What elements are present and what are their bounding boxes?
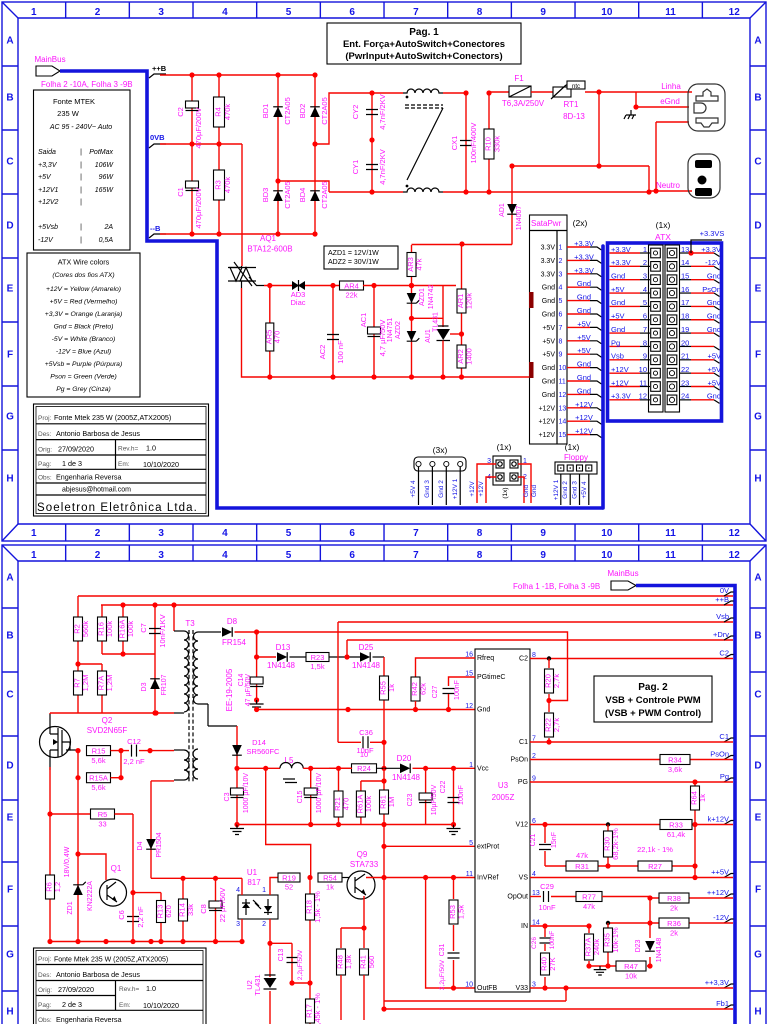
svg-text:E: E (755, 813, 762, 824)
wire R15A right (111, 777, 122, 779)
wire BD2/BD4 column (314, 75, 316, 234)
capacitor C36 (363, 736, 368, 748)
svg-text:61,4k: 61,4k (667, 830, 686, 839)
triac AQ1 (228, 262, 264, 288)
wire C7 column (154, 605, 156, 654)
svg-text:eGnd: eGnd (660, 97, 680, 106)
svg-text:2: 2 (95, 550, 101, 561)
capacitor C14 (250, 677, 263, 687)
svg-text:V12: V12 (516, 822, 529, 829)
svg-text:IN: IN (521, 923, 528, 930)
svg-text:CX1: CX1 (450, 136, 459, 151)
svg-text:+5V = Red (Vermelho): +5V = Red (Vermelho) (50, 299, 118, 306)
svg-text:11: 11 (665, 528, 676, 539)
resistor R40 (540, 953, 558, 975)
svg-text:4,7nF/2KV: 4,7nF/2KV (378, 149, 387, 184)
wire AU1 column top (442, 286, 444, 328)
svg-text:Gnd 2: Gnd 2 (438, 480, 445, 498)
wire R2 column (77, 596, 79, 664)
border frame (2, 545, 766, 1024)
wire switch loop horizontal (599, 165, 649, 167)
svg-text:4: 4 (222, 550, 228, 561)
svg-text:4: 4 (222, 528, 228, 539)
wire to AU1 branch (412, 285, 457, 287)
svg-text:100 nF: 100 nF (336, 340, 345, 364)
junction CY mid (369, 137, 374, 142)
svg-text:R27: R27 (648, 862, 662, 871)
svg-text:1k: 1k (326, 883, 334, 892)
svg-text:+5V 4: +5V 4 (581, 481, 588, 499)
wire 0VB to triac (241, 144, 243, 266)
wire BD1/BD3 column (277, 75, 279, 234)
resistor R55 (379, 676, 397, 700)
svg-text:--B: --B (150, 224, 161, 233)
wire Q9 emitter (363, 896, 365, 948)
svg-text:AD1: AD1 (499, 203, 506, 217)
resistor R23 (306, 653, 329, 672)
svg-text:Pag. 2: Pag. 2 (638, 682, 668, 693)
svg-text:Antonio Barbosa de Jesus: Antonio Barbosa de Jesus (56, 970, 140, 979)
capacitor AC2 plates (327, 335, 339, 340)
svg-text:(1x): (1x) (565, 442, 580, 452)
svg-text:Vsb: Vsb (716, 612, 729, 621)
capacitor C27 plates (443, 689, 455, 694)
svg-text:1,5k: 1,5k (457, 905, 466, 919)
wire socket pin (656, 121, 689, 123)
svg-text:2: 2 (559, 258, 563, 265)
svg-text:Neutro: Neutro (656, 181, 681, 190)
svg-text:10: 10 (601, 528, 613, 539)
svg-text:1.0: 1.0 (146, 984, 156, 993)
svg-text:Gnd: Gnd (542, 365, 555, 372)
svg-text:Fb1: Fb1 (716, 999, 729, 1008)
svg-text:Diac: Diac (290, 298, 305, 307)
svg-text:+12V = Yellow (Amarelo): +12V = Yellow (Amarelo) (46, 286, 121, 293)
svg-text:+3.3V: +3.3V (574, 252, 594, 261)
ATX pin rows (610, 245, 722, 404)
wire aux feed rail (412, 244, 513, 246)
svg-text:+3,3V: +3,3V (38, 162, 58, 169)
wire triac bottom (242, 288, 257, 377)
svg-text:+3.3V: +3.3V (574, 266, 594, 275)
wire D25 out (373, 656, 385, 658)
svg-text:PsOn: PsOn (710, 750, 729, 759)
svg-text:Des:: Des: (38, 431, 52, 438)
svg-text:+5V: +5V (542, 325, 555, 332)
svg-text:+5V: +5V (38, 174, 52, 181)
svg-text:C22: C22 (440, 780, 447, 793)
svg-text:3: 3 (158, 7, 164, 18)
wire D14 column (236, 726, 238, 768)
svg-text:10: 10 (601, 7, 613, 18)
svg-text:+5V: +5V (577, 333, 591, 342)
wire loop down (648, 166, 650, 192)
resistor R61 (379, 790, 397, 814)
wire R23 to node (329, 656, 360, 658)
svg-text:8: 8 (477, 550, 483, 561)
svg-text:Gnd 2: Gnd 2 (562, 481, 569, 499)
svg-text:2,2µF/50V: 2,2µF/50V (297, 949, 304, 980)
svg-text:U1: U1 (247, 868, 258, 877)
diode D4 (146, 839, 156, 849)
svg-text:abjesus@hotmail.com: abjesus@hotmail.com (62, 487, 131, 494)
svg-text:|: | (80, 224, 82, 231)
svg-text:Fonte Mtek 235 W (2005Z,ATX200: Fonte Mtek 235 W (2005Z,ATX2005) (54, 957, 168, 964)
svg-text:+12V: +12V (575, 427, 593, 436)
junction ++B/BD1 (275, 72, 280, 77)
svg-text:12: 12 (465, 703, 473, 710)
inductor L5 (280, 763, 303, 783)
svg-text:11: 11 (665, 550, 676, 561)
svg-text:2 de 3: 2 de 3 (62, 1000, 82, 1009)
svg-text:D: D (6, 221, 13, 232)
svg-text:5,6k: 5,6k (91, 756, 105, 765)
svg-text:R23: R23 (311, 653, 325, 662)
ATX pin strips (649, 245, 680, 412)
svg-text:B: B (6, 93, 13, 104)
svg-text:G: G (754, 950, 762, 961)
svg-text:|: | (80, 149, 82, 156)
resistor R2 (73, 617, 91, 641)
wire R16 column (101, 605, 103, 654)
wire socket pin down (655, 122, 657, 191)
svg-text:F: F (7, 885, 13, 896)
svg-text:33k: 33k (186, 904, 195, 916)
svg-text:Ent. Força+AutoSwitch+Conector: Ent. Força+AutoSwitch+Conectores (343, 39, 505, 50)
wire R53 C31 column (453, 878, 455, 989)
svg-text:1k: 1k (387, 684, 396, 692)
junction --B/BD4 (312, 231, 317, 236)
shunt reg U2 TL431 (264, 975, 277, 989)
svg-text:AC1: AC1 (359, 313, 368, 328)
svg-text:A: A (754, 36, 761, 47)
svg-text:C1: C1 (719, 732, 729, 741)
svg-text:|: | (80, 187, 82, 194)
wire R24 to D20 (377, 767, 401, 769)
svg-text:++5V: ++5V (711, 868, 729, 877)
fuse F1 (509, 86, 531, 97)
junction ++B/BD2 (312, 72, 317, 77)
svg-text:1N4148: 1N4148 (267, 661, 296, 670)
svg-text:12: 12 (729, 7, 741, 18)
svg-text:1400: 1400 (465, 348, 474, 365)
svg-text:G: G (6, 950, 14, 961)
capacitor C29 (544, 891, 549, 902)
svg-text:ZD1: ZD1 (67, 901, 74, 914)
svg-text:k+12V: k+12V (708, 815, 729, 824)
wire Q1 collector (78, 854, 106, 880)
svg-text:D4: D4 (137, 841, 144, 850)
svg-text:Obs:: Obs: (38, 475, 52, 482)
diode D3 (150, 679, 160, 689)
svg-text:+3,3V = Orange (Laranja): +3,3V = Orange (Laranja) (45, 311, 122, 318)
wire base feed row (151, 877, 242, 879)
svg-text:-12V = Blue (Azul): -12V = Blue (Azul) (56, 349, 111, 356)
svg-text:Saida: Saida (38, 149, 56, 156)
svg-text:R10: R10 (484, 137, 493, 151)
svg-text:E: E (755, 284, 762, 295)
SataPwr pin rows (538, 239, 601, 439)
svg-text:C3: C3 (224, 792, 231, 801)
svg-text:Q2: Q2 (102, 716, 113, 725)
svg-text:T3: T3 (185, 619, 195, 628)
wire C12 to T3 aux (139, 750, 174, 752)
net Pg (720, 772, 734, 782)
diode D25 (360, 652, 370, 662)
svg-text:1: 1 (262, 887, 266, 894)
wire R15-C12 (111, 750, 130, 752)
svg-text:2: 2 (643, 258, 647, 267)
Fonte MTEK info box (34, 90, 131, 250)
svg-text:6: 6 (349, 7, 355, 18)
wire ++B rail (160, 74, 315, 76)
svg-text:SR560FC: SR560FC (247, 747, 281, 756)
svg-text:100nF: 100nF (454, 680, 461, 700)
wire out row (237, 767, 280, 769)
svg-text:D14: D14 (252, 738, 266, 747)
resistor R20 (544, 669, 562, 693)
svg-text:(1x): (1x) (502, 487, 509, 498)
junction ++B/R4 (216, 72, 221, 77)
svg-text:D25: D25 (359, 643, 374, 652)
wire transformer bottom to Neutro branch (443, 191, 649, 193)
wire VS pin ++5V (530, 877, 733, 879)
svg-text:Orig:: Orig: (38, 447, 52, 454)
wire lower link (102, 653, 155, 655)
resistor R16 (97, 617, 115, 641)
svg-text:10nF/1KV: 10nF/1KV (158, 614, 167, 647)
resistor R47 (616, 961, 646, 981)
title block page 2 (34, 948, 207, 1024)
svg-text:C: C (6, 690, 13, 701)
net Fb1 (716, 999, 733, 1009)
svg-text:10/10/2020: 10/10/2020 (143, 1001, 179, 1010)
svg-text:Em:: Em: (119, 1002, 131, 1009)
net ++B (715, 595, 733, 605)
wire C13 row (270, 942, 292, 944)
wire R16A column (122, 605, 124, 654)
svg-text:|: | (80, 162, 82, 169)
svg-text:62k: 62k (419, 683, 428, 695)
wire Vsb rail (338, 621, 733, 623)
svg-text:1: 1 (31, 7, 37, 18)
P4 labels (469, 481, 538, 497)
wire Q1 emitter row (133, 892, 161, 894)
svg-text:15: 15 (559, 432, 567, 439)
net 0V (720, 586, 734, 596)
svg-text:H: H (6, 1007, 13, 1018)
diode D23 (645, 941, 655, 951)
svg-text:9: 9 (540, 528, 546, 539)
svg-text:F: F (7, 350, 13, 361)
diode BD2 (310, 107, 320, 117)
svg-text:0VB: 0VB (150, 133, 165, 142)
svg-text:3.3V: 3.3V (541, 245, 556, 252)
wire ++12V row (650, 897, 733, 899)
wire AR5 column (269, 286, 271, 378)
svg-text:CT2A05: CT2A05 (283, 181, 292, 209)
wire R7 column (77, 664, 79, 713)
svg-text:D13: D13 (276, 643, 291, 652)
svg-text:R15A: R15A (89, 774, 108, 783)
svg-text:F: F (755, 350, 761, 361)
svg-text:C31: C31 (439, 943, 446, 956)
svg-text:47k: 47k (583, 902, 595, 911)
wire C2a rail (257, 632, 568, 701)
svg-text:F1: F1 (514, 74, 524, 83)
resistor R4 (214, 75, 233, 144)
wire eGnd drop (635, 92, 637, 107)
svg-text:165W: 165W (95, 187, 115, 194)
MainBus arrow symbol (36, 66, 60, 76)
svg-text:6: 6 (349, 528, 355, 539)
svg-text:D: D (6, 761, 13, 772)
svg-text:9: 9 (540, 550, 546, 561)
svg-text:470µF/200V: 470µF/200V (194, 107, 203, 148)
capacitor C12 (132, 745, 137, 757)
svg-text:B: B (6, 631, 13, 642)
wire C6 column (132, 893, 134, 942)
svg-text:D: D (754, 221, 761, 232)
page 1 title box (327, 23, 521, 64)
svg-text:1N4148: 1N4148 (392, 773, 421, 782)
svg-text:5,6k: 5,6k (91, 783, 105, 792)
svg-text:8: 8 (559, 338, 563, 345)
svg-text:9: 9 (540, 7, 546, 18)
svg-text:5: 5 (559, 298, 563, 305)
junction --B/BD3 (275, 231, 280, 236)
svg-text:R47: R47 (624, 962, 638, 971)
diode BD1 (273, 107, 283, 117)
wire aux bottom (151, 780, 174, 782)
capacitor C15 (304, 788, 317, 798)
svg-text:A: A (6, 36, 13, 47)
resistor R53 (448, 900, 466, 924)
net C1 (719, 732, 733, 742)
svg-text:10/10/2020: 10/10/2020 (143, 460, 179, 469)
svg-text:+12V: +12V (538, 405, 555, 412)
svg-text:1,5k: 1,5k (310, 662, 324, 671)
svg-text:Gnd: Gnd (577, 293, 591, 302)
svg-text:1000 µF/10V: 1000 µF/10V (316, 773, 323, 814)
svg-text:C: C (754, 690, 761, 701)
svg-text:1: 1 (469, 762, 473, 769)
wire V33 pin (530, 987, 733, 989)
resistor R38 (659, 893, 689, 913)
svg-text:BD2: BD2 (298, 104, 307, 119)
wire C21 column (544, 825, 546, 867)
svg-text:+5V 4: +5V 4 (410, 480, 417, 498)
svg-text:RT1: RT1 (564, 100, 580, 109)
zener AZD1 (407, 293, 420, 303)
svg-text:PotMax: PotMax (89, 149, 113, 156)
svg-text:10: 10 (360, 750, 368, 759)
svg-text:R36: R36 (667, 919, 681, 928)
svg-text:C1: C1 (176, 187, 185, 197)
connector SataPwr (529, 215, 567, 444)
svg-text:12: 12 (729, 528, 741, 539)
svg-text:R34: R34 (668, 755, 682, 764)
svg-text:Gnd: Gnd (611, 325, 625, 334)
resistor R15A (87, 773, 111, 793)
svg-text:BD1: BD1 (261, 104, 270, 119)
svg-text:CT2A05: CT2A05 (283, 97, 292, 125)
title block page 1 (34, 404, 209, 516)
optocoupler U1 (238, 895, 278, 919)
capacitor C2 (186, 101, 199, 111)
svg-text:Em:: Em: (118, 461, 130, 468)
svg-text:KN2222A: KN2222A (87, 881, 94, 911)
svg-text:Pson = Green (Verde): Pson = Green (Verde) (50, 374, 116, 381)
wire CX1 column (465, 93, 467, 192)
shunt reg AU1 TL431 (412, 318, 451, 377)
svg-text:1,5k - 1%: 1,5k - 1% (313, 891, 322, 923)
svg-text:+12V: +12V (469, 481, 476, 497)
svg-text:+12V: +12V (611, 365, 629, 374)
svg-text:18V/0,4W: 18V/0,4W (64, 846, 71, 877)
svg-text:+12V: +12V (478, 481, 485, 497)
wire AR1 AR2 column (461, 244, 463, 377)
svg-text:11: 11 (639, 378, 647, 387)
wire VSB ground rail (50, 941, 242, 943)
svg-text:E: E (7, 284, 14, 295)
wire PGtimeC (449, 677, 476, 686)
wire bridge AC node top (315, 93, 403, 144)
svg-text:10: 10 (601, 550, 613, 561)
svg-text:Fonte Mtek 235 W (2005Z,ATX200: Fonte Mtek 235 W (2005Z,ATX2005) (54, 413, 171, 422)
resistor R42 (410, 677, 428, 701)
wire 0VB rail (160, 143, 242, 145)
svg-text:Gnd: Gnd (707, 272, 721, 281)
wire F1 to RT1 (531, 91, 553, 93)
wire T3 primary bottom (50, 712, 174, 714)
svg-text:5: 5 (286, 7, 292, 18)
page 2 title box (594, 676, 712, 722)
net ++12V (707, 888, 734, 898)
wire Q9 collector (366, 877, 384, 879)
wire R15A up (120, 751, 122, 778)
svg-text:1N4007: 1N4007 (516, 206, 523, 231)
svg-text:10k: 10k (625, 972, 637, 981)
svg-text:Proj:: Proj: (38, 415, 52, 422)
svg-text:3: 3 (559, 271, 563, 278)
capacitor AC1 (368, 327, 381, 337)
resistor R64 (690, 786, 708, 810)
wire R61A top link (361, 780, 384, 782)
svg-text:C8: C8 (199, 904, 208, 914)
svg-text:0V: 0V (720, 586, 729, 595)
wire +Drv column (346, 640, 348, 657)
svg-text:C29: C29 (540, 882, 554, 891)
diode D20 (400, 764, 410, 774)
svg-text:R4: R4 (214, 107, 223, 117)
svg-text:1N4751: 1N4751 (387, 318, 394, 343)
svg-text:7: 7 (559, 325, 563, 332)
wire AR3 column (411, 245, 413, 377)
transistor Q1 (100, 879, 127, 906)
wire C2 column (191, 75, 193, 144)
svg-text:106W: 106W (95, 162, 115, 169)
capacitor CX1 plates (460, 141, 472, 146)
svg-text:4: 4 (236, 887, 240, 894)
svg-text:FR154: FR154 (222, 638, 247, 647)
wire R20 R22 column (548, 659, 550, 743)
svg-text:1,45k - 1%: 1,45k - 1% (313, 993, 322, 1024)
svg-text:BD4: BD4 (298, 188, 307, 203)
svg-text:MainBus: MainBus (607, 569, 638, 578)
svg-text:Vcc: Vcc (477, 765, 489, 772)
wire C23 column (425, 768, 427, 824)
